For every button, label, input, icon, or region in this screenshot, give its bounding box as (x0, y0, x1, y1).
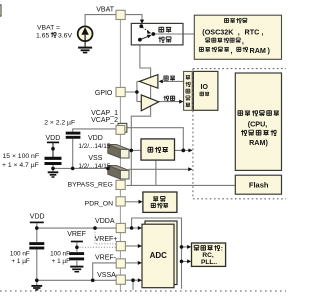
power switch pole wire (153, 33, 183, 35)
wire VBAT pin to power switch (125, 15, 142, 22)
core logic box (235, 73, 281, 170)
svg-text:+ 1 µF: + 1 µF (52, 258, 71, 265)
ground bottom-left (31, 286, 42, 290)
svg-text:,: , (262, 27, 264, 36)
label power switch (158, 27, 171, 42)
wire PDR_ON pin to reset controller (125, 201, 140, 203)
svg-text:+ 1 µF: + 1 µF (11, 258, 30, 265)
VDD tap bar bottom-left (30, 221, 44, 223)
IO logic box (193, 71, 218, 110)
ground under cap bank (48, 172, 59, 177)
svg-text:100 nF: 100 nF (50, 251, 70, 258)
svg-text:100 nF: 100 nF (10, 250, 30, 257)
pin PDR_ON (116, 197, 125, 206)
svg-text:VBAT: VBAT (96, 7, 114, 14)
power switch internals (138, 20, 155, 42)
svg-text:PLL..: PLL.. (201, 259, 217, 266)
level shifter box (184, 71, 193, 110)
dotted wire VDDA to VREF+ pin (95, 229, 116, 244)
wire VREF- to VSSA rail (93, 263, 117, 280)
svg-text:RAM): RAM) (249, 138, 268, 147)
svg-text:VREF-: VREF- (95, 254, 117, 261)
svg-text:GPIO: GPIO (95, 90, 113, 97)
pin VBAT (116, 10, 125, 19)
pin VDDA (116, 223, 125, 232)
arrowheads (138, 79, 193, 282)
svg-text:+ 1 × 4.7 µF: + 1 × 4.7 µF (2, 162, 39, 169)
wire VDDA pin to ADC and analog rail (126, 218, 182, 289)
label regulator (148, 147, 168, 153)
svg-text:VDD: VDD (46, 135, 61, 142)
wire GPIO pin to buffers (125, 81, 141, 101)
svg-text:VDD: VDD (30, 214, 45, 221)
Flash box (235, 175, 281, 194)
capacitor bank 15x100nF+4.7uF (45, 158, 62, 163)
wire power switch to backup circuit (183, 33, 194, 35)
analog circuits box (192, 243, 226, 266)
VREF tap bar (71, 241, 83, 243)
wire VBAT source to pin (85, 15, 116, 27)
wire level shifter to output buffer (161, 80, 184, 82)
svg-text:VCAP_1: VCAP_1 (91, 110, 118, 117)
svg-text:1/2/...14/15: 1/2/...14/15 (78, 143, 110, 150)
chip bottom dashed border (0, 290, 286, 292)
svg-text:1.65: 1.65 (36, 33, 49, 40)
voltage source VBAT (78, 26, 93, 41)
label backup circuit (199, 18, 270, 55)
wire VCAP cap to pin (73, 129, 117, 132)
svg-text:VSSA: VSSA (97, 272, 116, 279)
wire VDDA cap to VSSA rail (37, 250, 116, 286)
input buffer triangle (141, 95, 158, 111)
wire VREF- pin to ADC (126, 262, 139, 264)
svg-text:3.6V: 3.6V (58, 33, 72, 40)
svg-text:VDD: VDD (88, 135, 103, 142)
wire IO buffer rail down to VDD node (131, 106, 150, 185)
svg-text:(OSC32K: (OSC32K (202, 27, 234, 36)
pin VCAP_1 VCAP_2 stacked (118, 123, 127, 132)
svg-text:VREF+: VREF+ (95, 236, 118, 243)
wire VCAP pin to regulator output (127, 128, 184, 151)
wire VREF tap branch (76, 242, 78, 265)
pin VREF+ (116, 242, 125, 251)
svg-text:VDDA: VDDA (95, 218, 115, 225)
svg-text:IO: IO (201, 84, 209, 91)
dotted wire VREF cap to VREF+ pin (77, 246, 116, 248)
backup circuit box (194, 15, 281, 59)
capacitor 2x2.2uF VCAP (66, 133, 81, 137)
3D pin VDD 1..15 (108, 145, 129, 159)
svg-text:VREF: VREF (67, 231, 86, 238)
svg-text:1/2/...14/15: 1/2/...14/15 (78, 163, 110, 170)
svg-text:,: , (231, 46, 233, 55)
3D pin VSS 1..15 (108, 166, 129, 180)
power switch box (131, 23, 183, 45)
svg-text:RAM: RAM (250, 46, 266, 55)
ground under VREF cap (70, 267, 83, 272)
digital-domain dashed boundary (193, 69, 286, 199)
wire VDD pin to regulator (129, 149, 141, 151)
svg-text:VCAP_2: VCAP_2 (91, 117, 118, 124)
svg-text:,: , (238, 27, 240, 36)
wire VREF+ pin to ADC (126, 245, 139, 247)
label analog circuits (194, 245, 223, 266)
svg-text:VBAT =: VBAT = (37, 25, 60, 32)
capacitor 100nF+1uF on VDDA (29, 244, 44, 248)
cropped box sliver at left edge (0, 5, 1, 16)
wire VSSA pin to ADC (126, 280, 139, 290)
svg-text:2 × 2.2 µF: 2 × 2.2 µF (44, 120, 75, 127)
pin VREF- (116, 259, 125, 268)
capacitor 100nF+1uF on VREF (69, 254, 84, 259)
ground under VBAT source (78, 41, 92, 53)
VDD tap bar top-left (47, 141, 59, 143)
wire bottom VDD tap and VDDA rail (37, 223, 116, 242)
chip edge pin rail (119, 10, 121, 291)
label level shifter vertical (186, 76, 191, 108)
ADC box stacked (142, 221, 177, 288)
pin BYPASS_REG (116, 180, 125, 189)
wire regulator bottom to bypass net (155, 160, 157, 185)
label core logic (238, 110, 279, 147)
wire VSS pin to core (129, 168, 192, 170)
pin VSSA (116, 275, 125, 284)
svg-text:,: , (242, 37, 244, 46)
svg-text:Flash: Flash (249, 181, 269, 190)
wire input buffer to level shifter (159, 101, 180, 103)
svg-text::: : (221, 246, 223, 253)
wire analog rail to analog circuits (182, 247, 189, 262)
wire BYPASS_REG pin to Flash (126, 184, 235, 186)
svg-text:(CPU,: (CPU, (248, 119, 268, 128)
regulator box (141, 139, 175, 160)
reset controller box (143, 192, 177, 212)
svg-text:VSS: VSS (88, 155, 102, 162)
label reset controller (151, 196, 168, 208)
label output (164, 76, 175, 81)
svg-text:PDR_ON: PDR_ON (85, 200, 113, 207)
svg-text:RTC: RTC (245, 27, 260, 36)
wire regulator output to core (175, 149, 193, 151)
svg-text:ADC: ADC (150, 251, 168, 260)
wire VDD tap top-left (52, 143, 54, 157)
svg-text:BYPASS_REG: BYPASS_REG (68, 182, 113, 189)
wire switch VDD throw down to IO buffers (140, 40, 151, 106)
wire decoupling bank to VSS rail (53, 139, 108, 172)
output buffer triangle (139, 75, 158, 89)
svg-text:15 × 100 nF: 15 × 100 nF (3, 153, 39, 160)
pin GPIO (116, 87, 125, 96)
label input (163, 96, 174, 101)
